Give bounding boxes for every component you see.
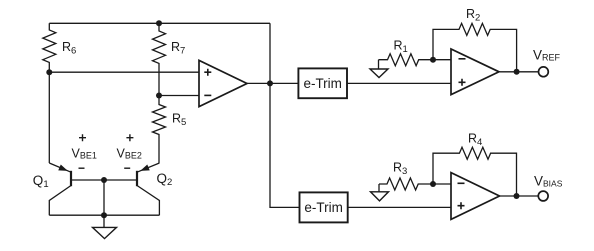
svg-text:R6: R6	[62, 40, 76, 57]
node G (R3/R4/U3- junction)	[430, 181, 436, 187]
node F (VREF junction)	[514, 69, 520, 75]
wire feedback vertical (rail to e-Trim 2)	[270, 23, 300, 207]
wire R6 junction to op-amp U1 + input	[49, 71, 199, 73]
svg-text:Q2: Q2	[157, 171, 173, 188]
svg-text:R5: R5	[172, 112, 186, 129]
node C (R7/R5 junction)	[156, 93, 162, 99]
wire Q1 emitter column (R6 junction down)	[48, 72, 50, 163]
svg-text:R7: R7	[171, 40, 185, 57]
resistor R1	[379, 39, 434, 66]
svg-text:R2: R2	[466, 7, 480, 24]
op-amp U3	[451, 173, 500, 220]
node B (R7 top junction on rail)	[156, 20, 162, 26]
terminal VREF	[533, 48, 561, 77]
wire R7/R5 junction to op-amp U1 - input	[159, 95, 199, 97]
wire e-Trim 2 to op-amp U3 + input	[348, 206, 451, 208]
svg-text:e-Trim: e-Trim	[304, 200, 343, 215]
label VBE2 with polarity	[117, 134, 142, 168]
node I (base junction)	[101, 177, 107, 183]
terminal VBIAS	[534, 174, 563, 201]
resistor R5	[153, 96, 187, 164]
wire U2 output to VREF terminal	[499, 71, 539, 73]
resistor R4 with feedback wire	[433, 132, 517, 197]
svg-text:VBIAS: VBIAS	[534, 174, 563, 189]
node J (collector rail junction)	[101, 212, 107, 218]
wire junction to U3 - input	[433, 183, 451, 185]
wire U1 output	[247, 82, 270, 84]
transistor Q2	[137, 163, 172, 215]
resistor R2 with feedback wire	[433, 7, 517, 72]
svg-text:e-Trim: e-Trim	[303, 76, 342, 91]
node E (R1/R2/U2- junction)	[430, 57, 436, 63]
ground (R1)	[370, 60, 388, 78]
node A (R6 bottom junction)	[46, 69, 52, 75]
transistor Q1	[33, 163, 71, 215]
wire U1 output to e-Trim 1	[270, 82, 298, 84]
wire collector rail	[49, 214, 159, 216]
op-amp U2	[451, 49, 499, 95]
ground (main)	[93, 227, 117, 238]
node D (U1 output junction)	[267, 80, 273, 86]
node H (VBIAS junction)	[514, 193, 520, 199]
svg-text:R4: R4	[468, 132, 482, 149]
label VBE1 with polarity	[72, 134, 97, 168]
wire junction to U2 - input	[433, 59, 451, 61]
svg-text:R3: R3	[393, 161, 407, 178]
ground (R3)	[371, 184, 389, 201]
wire e-Trim 1 to op-amp U2 + input	[347, 82, 451, 84]
resistor R7	[153, 23, 186, 95]
resistor R6	[43, 23, 77, 72]
wire base junction down to collector rail	[103, 180, 105, 227]
wire top rail	[49, 22, 270, 24]
svg-text:VREF: VREF	[533, 48, 561, 63]
wire U3 output to VBIAS terminal	[500, 195, 539, 197]
resistor R3	[379, 161, 433, 191]
op-amp U1	[199, 60, 247, 106]
svg-text:Q1: Q1	[33, 173, 49, 190]
svg-text:VBE2: VBE2	[117, 146, 142, 160]
e-Trim block 2	[300, 192, 348, 222]
svg-text:VBE1: VBE1	[72, 146, 97, 160]
wire base rail Q1-Q2	[71, 179, 137, 181]
e-Trim block 1	[298, 68, 347, 98]
